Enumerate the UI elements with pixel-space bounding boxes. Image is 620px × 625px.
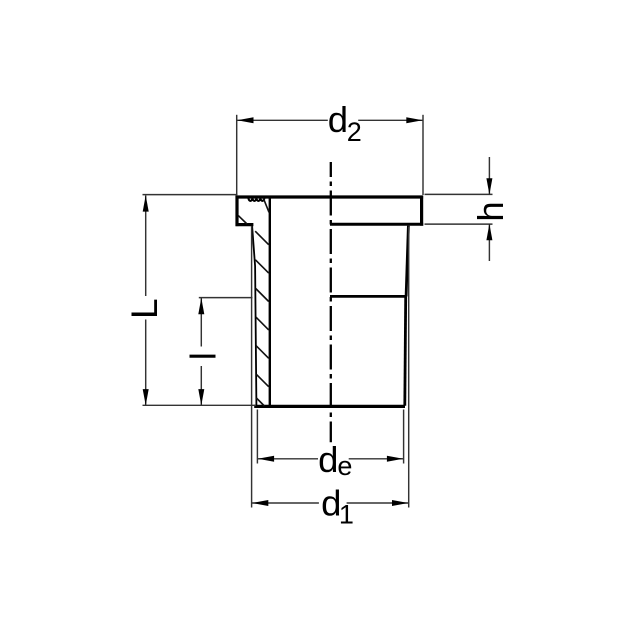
external step edge line	[330, 295, 406, 298]
flange underside right outline	[330, 223, 423, 226]
d1 dimension line right segment	[347, 502, 409, 504]
wall hatch 3	[256, 289, 269, 302]
de right arrow	[387, 456, 403, 462]
L dimension line lower segment	[145, 320, 147, 406]
svg-text:L: L	[124, 298, 165, 319]
h top extension line	[425, 193, 493, 195]
svg-text:h: h	[470, 201, 511, 221]
d1 left extension line	[251, 226, 253, 508]
wall hatch 4	[256, 317, 269, 330]
wall hatch 7 (partial)	[256, 398, 264, 406]
knurl zigzag on flange top	[248, 198, 264, 201]
l bottom arrow	[198, 389, 204, 405]
d1 dimension line left segment	[252, 502, 319, 504]
d2 dimension line left segment	[237, 119, 328, 121]
d1 left arrow	[252, 500, 268, 506]
d2 left extension line	[236, 115, 238, 195]
wall hatch 6	[256, 374, 268, 386]
svg-text:2: 2	[347, 117, 362, 147]
bottom extension line (L and l)	[143, 404, 257, 406]
step corner hatch	[238, 216, 247, 224]
d2 left arrow	[237, 117, 253, 123]
d2 dimension line right segment	[358, 119, 423, 121]
l top extension line	[199, 297, 253, 299]
L top arrow	[143, 195, 149, 211]
flange left edge outline	[235, 196, 238, 227]
de left arrow	[258, 456, 274, 462]
svg-text:1: 1	[339, 499, 354, 529]
flange right edge outline	[420, 196, 423, 226]
d2 right arrow	[406, 117, 422, 123]
flange top outline	[236, 195, 424, 198]
svg-text:d: d	[328, 99, 348, 140]
centerline (vertical dash-dot axis)	[330, 162, 332, 442]
svg-text:l: l	[182, 352, 223, 360]
body bottom outline	[254, 405, 405, 408]
d2 right extension line	[422, 115, 424, 195]
flange left step bottom outline	[236, 223, 254, 226]
l dimension line lower segment	[200, 366, 202, 405]
h lower arrow (pointing up)	[486, 224, 492, 240]
right outer wall upper (tapered)	[406, 226, 408, 297]
flange section diagonal (steep hatch)	[263, 198, 269, 213]
l top arrow	[198, 298, 204, 314]
h upper arrow (pointing down)	[486, 178, 492, 194]
h upper leader line	[488, 157, 490, 194]
h lower leader line	[488, 224, 490, 261]
de dimension line right segment	[349, 458, 404, 460]
svg-text:d: d	[318, 439, 338, 480]
L bottom arrow	[143, 389, 149, 405]
L top extension line	[143, 194, 238, 196]
de left extension line	[256, 410, 258, 464]
svg-text:e: e	[337, 451, 352, 481]
de right extension line	[403, 410, 405, 464]
right outer wall lower	[403, 296, 407, 405]
wall hatch 2	[255, 260, 268, 273]
L dimension line upper segment	[145, 196, 147, 297]
d1 right extension line	[408, 227, 410, 508]
d1 right arrow	[392, 500, 408, 506]
wall hatch 5	[256, 346, 269, 359]
left bore wall (section inner line)	[269, 196, 271, 406]
l dimension line upper segment	[200, 298, 202, 347]
h bottom extension line	[425, 223, 493, 225]
left outer wall (tapered)	[252, 226, 256, 405]
de dimension line left segment	[257, 458, 318, 460]
wall hatch 1	[255, 231, 269, 245]
